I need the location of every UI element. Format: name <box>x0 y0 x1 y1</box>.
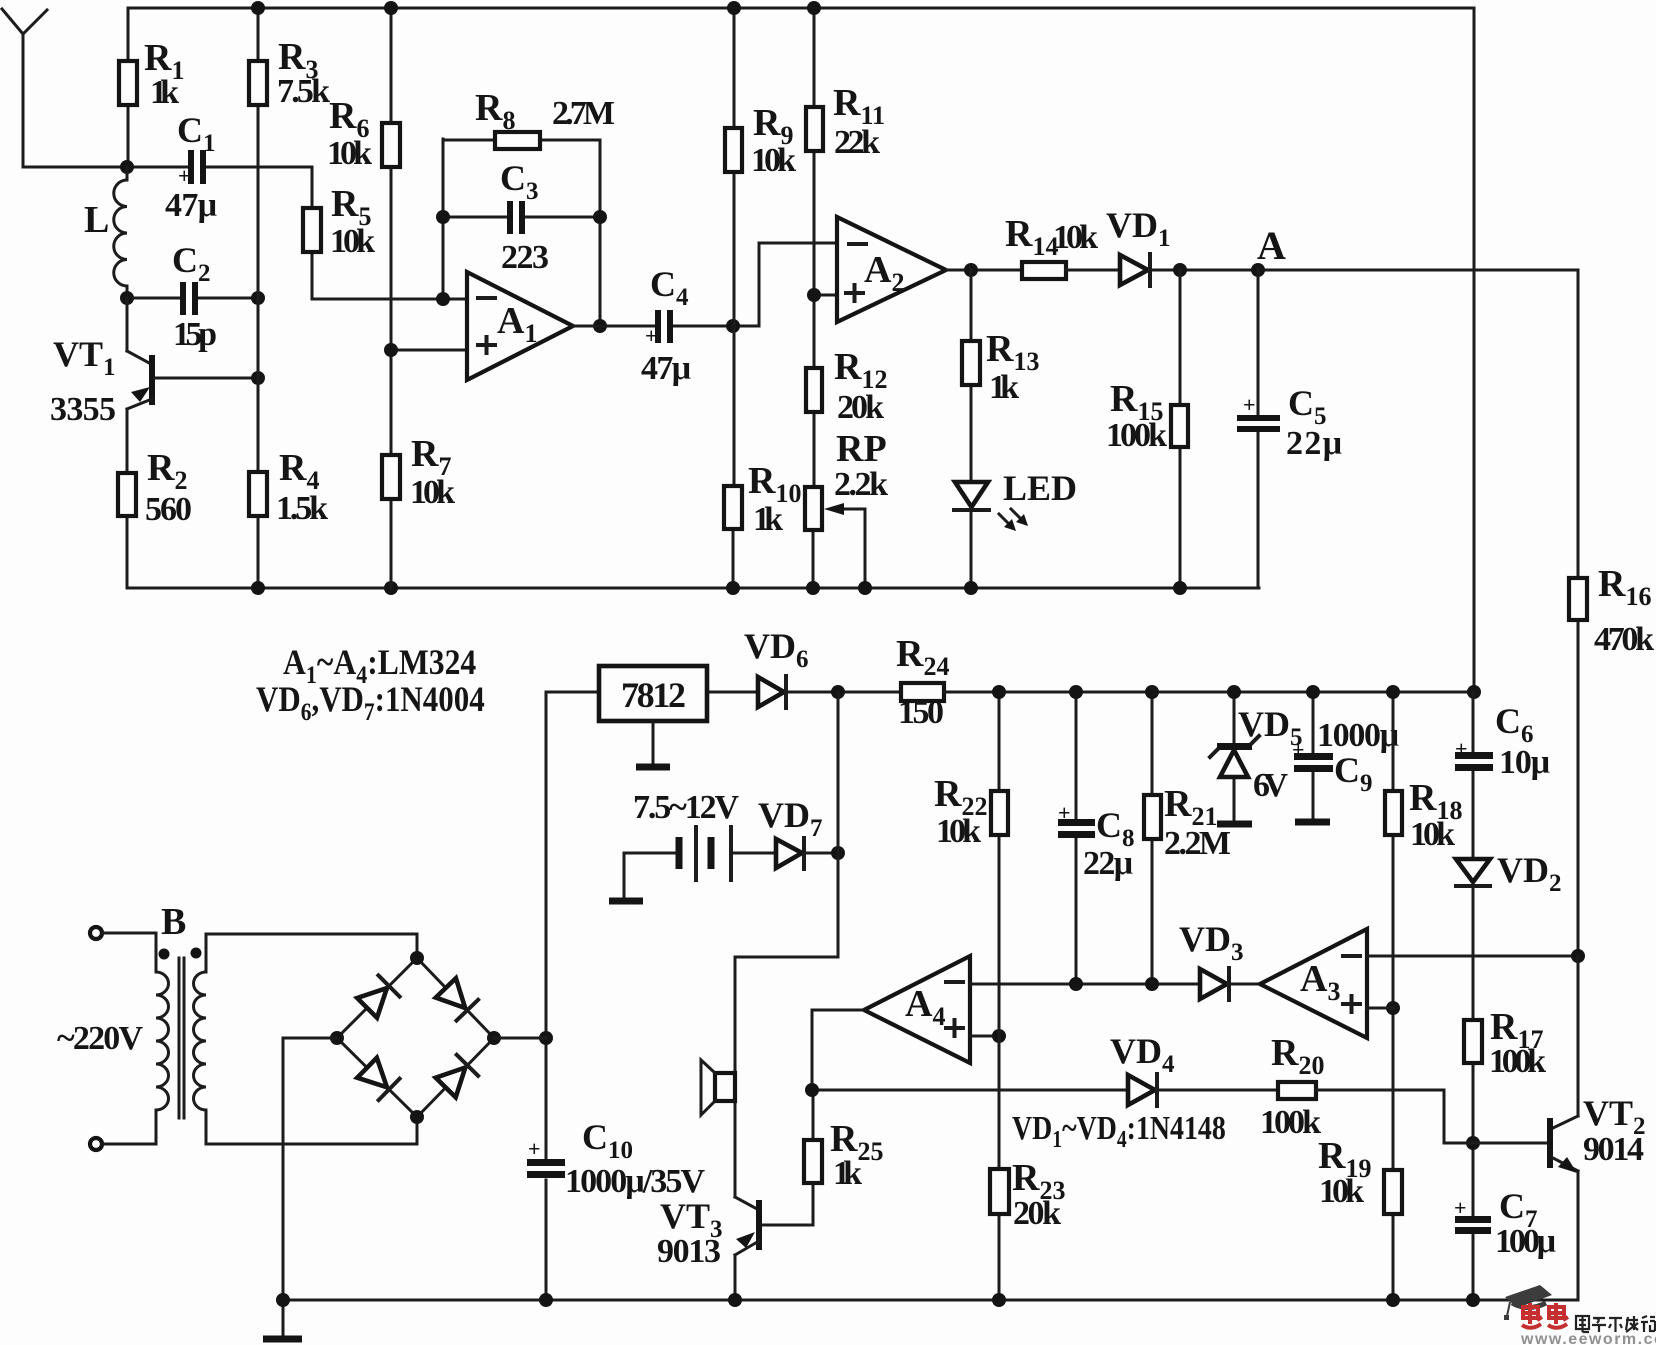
svg-text:1.5k: 1.5k <box>276 490 328 527</box>
node C4/R9 <box>726 319 740 333</box>
svg-text:10μ: 10μ <box>1499 744 1550 781</box>
svg-text:C9: C9 <box>1334 750 1373 797</box>
svg-text:9014: 9014 <box>1583 1131 1644 1168</box>
wire A4 output feedback <box>812 1010 1128 1090</box>
svg-text:20k: 20k <box>837 389 884 426</box>
node A2 out/R13 <box>964 263 978 277</box>
svg-text:VD6,VD7:1N4004: VD6,VD7:1N4004 <box>256 680 485 727</box>
resistor R10 <box>724 460 801 588</box>
watermark site name glyphs <box>1576 1316 1655 1332</box>
svg-text:+: + <box>645 323 658 348</box>
node feedback right C3 <box>593 210 607 224</box>
resistor R4 <box>249 447 328 588</box>
node R21 top rail <box>1145 685 1159 699</box>
op-amp A3 <box>1260 929 1367 1038</box>
capacitor C9 1000u <box>1292 692 1399 822</box>
bridge diode top-right <box>436 978 478 1020</box>
svg-text:www.eeworm.com: www.eeworm.com <box>1520 1331 1656 1345</box>
svg-text:LED: LED <box>1003 468 1077 508</box>
svg-text:100k: 100k <box>1489 1043 1546 1080</box>
node bridge top <box>410 951 424 965</box>
svg-text:150: 150 <box>898 694 944 731</box>
ground battery <box>609 853 643 901</box>
svg-text:7.5~12V: 7.5~12V <box>633 789 739 826</box>
svg-text:470k: 470k <box>1594 621 1654 658</box>
svg-text:47μ: 47μ <box>165 187 217 224</box>
node ground rail left <box>276 1293 290 1307</box>
wire bridge minus to ground rail <box>283 1038 337 1300</box>
resistor R9 <box>725 8 796 486</box>
svg-text:10k: 10k <box>330 223 375 260</box>
svg-text:+: + <box>1454 1195 1467 1220</box>
transformer B secondary <box>194 934 418 1144</box>
wire top supply rail <box>128 7 1474 10</box>
node R11 top rail <box>807 1 821 15</box>
resistor R3 <box>249 8 330 472</box>
node bridge bottom <box>410 1110 424 1124</box>
op-amp A4 <box>864 956 970 1063</box>
svg-text:C4: C4 <box>650 264 689 311</box>
resistor R22 <box>934 692 1008 1169</box>
svg-text:2.2k: 2.2k <box>834 466 888 503</box>
node R22 top rail <box>992 685 1006 699</box>
node feedback left C3 <box>436 210 450 224</box>
svg-text:R12: R12 <box>834 346 887 394</box>
node A <box>1251 223 1286 277</box>
node A2 plus junction <box>807 288 837 302</box>
bridge rectifier diamond <box>337 958 494 1117</box>
diode VD4 <box>1110 1031 1278 1106</box>
node power rail right <box>1467 685 1481 699</box>
capacitor C10 <box>527 1117 705 1200</box>
node R17/VT2 base junction <box>1466 1136 1480 1150</box>
svg-text:VD2: VD2 <box>1497 850 1562 897</box>
bridge diode bottom-right <box>436 1055 478 1098</box>
node VD5 top rail <box>1227 685 1241 699</box>
svg-text:10k: 10k <box>1319 1173 1364 1210</box>
node R23 bottom <box>992 1293 1006 1307</box>
resistor R20 100k <box>1260 1032 1548 1143</box>
antenna <box>2 9 47 167</box>
svg-text:10k: 10k <box>1053 219 1098 256</box>
svg-text:6V: 6V <box>1253 767 1288 804</box>
svg-text:VD7: VD7 <box>758 795 823 842</box>
svg-text:R20: R20 <box>1271 1032 1324 1080</box>
node C9 top rail <box>1306 685 1320 699</box>
node R6 top rail <box>384 1 398 15</box>
resistor R16 <box>1569 270 1654 956</box>
svg-text:VD1: VD1 <box>1106 205 1171 252</box>
resistor R8 2.7M feedback <box>443 87 615 326</box>
node R3 top rail <box>251 1 265 15</box>
diode VD6 <box>744 626 901 708</box>
svg-text:15p: 15p <box>173 316 217 353</box>
node R18/A3 plus <box>1386 1001 1400 1015</box>
node R15 bottom <box>1173 581 1187 595</box>
resistor R2 <box>118 447 192 588</box>
wire unregulated feed to VT3 collector <box>735 692 838 1197</box>
svg-text:560: 560 <box>145 491 192 528</box>
svg-text:7.5k: 7.5k <box>277 73 330 110</box>
wire right supply column <box>1473 8 1476 692</box>
svg-text:R21: R21 <box>1164 783 1217 831</box>
svg-text:1k: 1k <box>753 501 783 538</box>
wire bottom rail of RF section <box>127 587 1259 590</box>
node A1 output <box>593 319 607 333</box>
node VD6/VD7 junction <box>831 685 845 699</box>
svg-text:2.2M: 2.2M <box>1164 825 1231 862</box>
svg-text:B: B <box>161 901 186 943</box>
svg-text:VT1: VT1 <box>53 334 116 381</box>
svg-text:R11: R11 <box>833 82 885 130</box>
node feedback left minus input <box>436 292 450 306</box>
node R4 bottom <box>251 581 265 595</box>
svg-text:1k: 1k <box>833 1155 862 1192</box>
capacitor C5 <box>1237 270 1342 588</box>
svg-text:22k: 22k <box>834 124 880 161</box>
svg-text:22μ: 22μ <box>1083 845 1133 882</box>
wire A3 minus input <box>1367 955 1578 958</box>
op-amp A1 <box>467 272 573 380</box>
svg-text:1000μ: 1000μ <box>1317 717 1399 754</box>
svg-text:R8: R8 <box>475 87 515 135</box>
svg-text:2.7M: 2.7M <box>552 95 615 132</box>
node R10 bottom <box>726 581 740 595</box>
svg-text:100k: 100k <box>1260 1104 1321 1141</box>
node L/C2/VT1 <box>120 291 134 305</box>
svg-text:1k: 1k <box>989 369 1019 406</box>
svg-text:VD6: VD6 <box>744 626 809 673</box>
zener VD5 6V <box>1210 692 1303 824</box>
svg-text:VD4: VD4 <box>1110 1031 1175 1078</box>
node junction R1/C1/L <box>120 160 134 174</box>
bridge diode top-left <box>357 975 399 1017</box>
svg-text:223: 223 <box>501 239 549 276</box>
resistor R25 <box>804 1090 883 1225</box>
svg-text:C1: C1 <box>177 110 216 157</box>
node A1 plus junction <box>384 343 467 357</box>
svg-text:1k: 1k <box>150 74 179 111</box>
svg-text:R2: R2 <box>147 447 187 495</box>
node A3 minus/R16/VT2 <box>1571 949 1585 963</box>
potentiometer RP 2.2k <box>805 428 888 588</box>
svg-text:+: + <box>1292 737 1305 762</box>
ground main <box>263 1300 302 1339</box>
svg-text:3355: 3355 <box>50 391 116 428</box>
capacitor C6 <box>1455 692 1550 858</box>
resistor R21 <box>1144 692 1231 984</box>
diode VD7 <box>758 795 838 869</box>
svg-text:C6: C6 <box>1495 701 1534 748</box>
watermark chongchong red glyphs <box>1522 1303 1568 1328</box>
node bridge plus column <box>539 1031 553 1045</box>
resistor R24 150 <box>896 633 1474 731</box>
svg-text:A: A <box>1257 223 1286 268</box>
svg-text:10k: 10k <box>936 813 981 850</box>
regulator U 7812 <box>546 666 758 721</box>
svg-text:10k: 10k <box>327 135 372 172</box>
capacitor C8 <box>1058 692 1135 984</box>
wire A4 plus input <box>970 1035 999 1038</box>
svg-text:10k: 10k <box>1410 816 1455 853</box>
resistor R7 <box>382 433 455 588</box>
node base VT1/R3 column <box>251 371 265 385</box>
node C10 bottom <box>539 1293 553 1307</box>
node R18 top rail <box>1386 685 1400 699</box>
svg-text:100k: 100k <box>1106 417 1167 454</box>
svg-text:+: + <box>1058 800 1071 825</box>
resistor R12 <box>806 346 887 487</box>
capacitor C1 <box>165 110 312 224</box>
speaker <box>701 1060 735 1115</box>
capacitor C7 <box>1454 1186 1556 1300</box>
node VD1/R15 <box>1173 263 1187 277</box>
node bridge right <box>487 1031 501 1045</box>
node A4 plus/R22 R23 <box>992 1029 1006 1043</box>
svg-text:+: + <box>178 163 191 188</box>
resistor R15 <box>1106 270 1188 588</box>
battery 7.5~12V <box>624 789 776 880</box>
transistor VT2 9014 <box>1547 956 1646 1300</box>
node C2/R3 <box>251 291 265 305</box>
bridge diode bottom-left <box>357 1058 399 1100</box>
capacitor C3 223 feedback <box>443 158 600 276</box>
svg-text:R4: R4 <box>279 447 319 495</box>
watermark cap <box>1504 1285 1552 1320</box>
svg-text:10k: 10k <box>410 474 455 511</box>
resistor R18 <box>1385 692 1462 1170</box>
node R7 bottom <box>384 581 398 595</box>
watermark url <box>1520 1331 1656 1345</box>
inductor L <box>84 167 127 298</box>
resistor R11 <box>806 8 885 368</box>
wire antenna feed <box>23 166 189 169</box>
text note 1N4148 <box>1012 1108 1226 1152</box>
node VD7 cathode <box>831 846 845 860</box>
wire A3 plus input <box>1367 1007 1393 1010</box>
svg-text:C2: C2 <box>172 240 211 287</box>
svg-text:R16: R16 <box>1598 563 1651 611</box>
text note 1N4004 <box>256 680 485 727</box>
node C7 bottom <box>1466 1293 1480 1307</box>
wire A4 minus input <box>970 983 1200 986</box>
node R19 bottom <box>1386 1293 1400 1307</box>
diode VD3 <box>1179 919 1260 1000</box>
svg-text:10k: 10k <box>751 142 796 179</box>
LED <box>954 468 1077 588</box>
node C8 top rail <box>1069 685 1083 699</box>
diode VD2 <box>1456 850 1562 1020</box>
capacitor C2 <box>127 240 259 353</box>
svg-text:C3: C3 <box>500 158 539 205</box>
resistor R17 <box>1464 1006 1546 1217</box>
capacitor C4 <box>573 243 837 387</box>
resistor R1 <box>119 8 184 167</box>
svg-text:C5: C5 <box>1288 383 1327 430</box>
node VT3 emitter ground <box>728 1293 742 1307</box>
resistor R19 <box>1318 1135 1402 1300</box>
svg-text:100μ: 100μ <box>1495 1223 1556 1260</box>
svg-text:~220V: ~220V <box>57 1020 143 1057</box>
node RP wiper bottom <box>858 581 872 595</box>
svg-text:VD3: VD3 <box>1179 919 1244 966</box>
wire bottom ground rail <box>283 1299 1578 1302</box>
transistor VT1 3355 <box>50 298 258 473</box>
svg-text:L: L <box>84 199 109 241</box>
resistor R13 <box>962 270 1039 482</box>
transformer core <box>179 958 184 1118</box>
node RP bottom <box>806 581 820 595</box>
wire bridge plus lead <box>494 1037 546 1040</box>
svg-text:1000μ/35V: 1000μ/35V <box>565 1163 705 1200</box>
text note LM324 <box>283 643 476 689</box>
svg-text:+: + <box>1455 736 1468 761</box>
wire bridge to 7812 column <box>545 692 548 1300</box>
node A4 out/R25 <box>805 1083 819 1097</box>
wire A2 output <box>946 269 1022 272</box>
svg-text:20k: 20k <box>1013 1195 1061 1232</box>
resistor R6 <box>327 8 400 455</box>
node R9 top rail <box>727 1 741 15</box>
resistor R14 10k <box>1005 213 1120 279</box>
svg-text:VD1~VD4:1N4148: VD1~VD4:1N4148 <box>1012 1108 1226 1152</box>
svg-text:7812: 7812 <box>621 675 686 715</box>
diode VD1 <box>1106 205 1578 286</box>
resistor R5 <box>303 167 467 299</box>
svg-text:C10: C10 <box>582 1117 633 1164</box>
svg-text:+: + <box>1243 392 1256 417</box>
node LED bottom <box>964 581 978 595</box>
ground under 7812 <box>636 721 670 767</box>
svg-text:9013: 9013 <box>657 1233 721 1270</box>
svg-text:+: + <box>528 1136 541 1161</box>
svg-text:RP: RP <box>836 428 887 470</box>
resistor R23 <box>990 1157 1065 1300</box>
node bridge left <box>330 1031 344 1045</box>
node R21 bottom <box>1145 977 1159 991</box>
transformer phasing dots <box>159 948 202 960</box>
svg-text:R14: R14 <box>1005 213 1058 261</box>
svg-text:22μ: 22μ <box>1286 425 1342 462</box>
transformer B primary <box>57 901 186 1150</box>
svg-text:R24: R24 <box>896 633 949 681</box>
node C8 bottom <box>1069 977 1083 991</box>
svg-text:47μ: 47μ <box>641 350 691 387</box>
transistor VT3 9013 <box>657 1196 813 1300</box>
op-amp A2 <box>837 217 946 322</box>
